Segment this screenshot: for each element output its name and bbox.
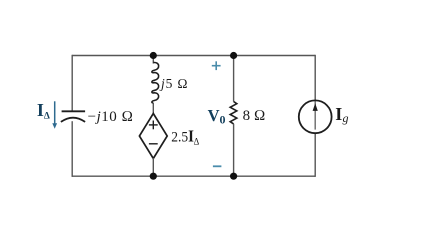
wire resistor lower [233, 124, 235, 176]
node dot bottom middle [150, 173, 157, 180]
plus sign inside diamond [149, 121, 158, 130]
svg-text:8 Ω: 8 Ω [243, 108, 266, 124]
minus polarity mark (blue) [213, 165, 222, 167]
dependent source 2.5 I-delta (diamond) [139, 114, 167, 159]
wire middle upper (top node to inductor) [152, 56, 154, 64]
plus polarity mark (blue) [212, 61, 221, 70]
current source Ig (circle) [299, 100, 332, 133]
wire right lower [314, 133, 316, 177]
wire inductor to dependent source [152, 103, 154, 114]
svg-text:j5 Ω: j5 Ω [159, 76, 188, 91]
wire left lower (from capacitor) [71, 121, 73, 177]
node dot top right of resistor branch [230, 52, 237, 59]
wire right upper [314, 55, 316, 101]
svg-text:V0: V0 [208, 106, 226, 127]
wire resistor upper [233, 56, 235, 102]
arrowhead inside current source (upward) [313, 103, 318, 111]
resistor 8 ohm [230, 102, 237, 124]
node dot top middle [150, 52, 157, 59]
svg-text:Ig: Ig [335, 104, 348, 125]
wire left upper (to capacitor) [71, 55, 73, 112]
wire top (node from left branch to current source) [72, 55, 315, 57]
minus sign inside diamond [149, 143, 158, 145]
current arrow I-delta (blue, downward) [52, 101, 57, 128]
wire dependent source to bottom node [152, 158, 154, 176]
inductor j5 ohm [152, 63, 159, 103]
arrow shaft inside current source [314, 100, 316, 130]
capacitor -j10 ohm [61, 111, 85, 122]
svg-text:2.5IΔ: 2.5IΔ [171, 128, 199, 148]
svg-text:−j10 Ω: −j10 Ω [88, 109, 134, 125]
svg-text:IΔ: IΔ [37, 100, 50, 122]
node dot bottom right of resistor branch [230, 173, 237, 180]
wire bottom [72, 175, 315, 177]
